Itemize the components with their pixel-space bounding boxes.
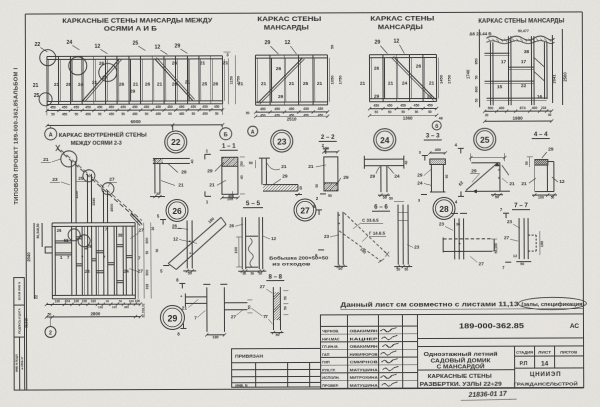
svg-text:30: 30 xyxy=(315,184,319,188)
svg-text:22: 22 xyxy=(34,295,38,299)
svg-text:26: 26 xyxy=(172,206,182,216)
svg-text:17: 17 xyxy=(521,59,527,65)
svg-text:26: 26 xyxy=(172,223,178,228)
svg-text:138: 138 xyxy=(98,305,103,309)
svg-text:21: 21 xyxy=(281,164,287,170)
svg-text:1050: 1050 xyxy=(330,75,335,85)
svg-text:21: 21 xyxy=(157,82,163,88)
svg-text:100: 100 xyxy=(538,196,544,200)
svg-text:26: 26 xyxy=(416,64,422,70)
svg-text:50: 50 xyxy=(445,174,449,178)
svg-text:4 – 4: 4 – 4 xyxy=(534,131,548,138)
svg-text:50: 50 xyxy=(525,161,529,165)
svg-text:16: 16 xyxy=(537,94,543,99)
svg-text:2: 2 xyxy=(49,330,52,336)
svg-text:32,318: 32,318 xyxy=(24,318,28,328)
svg-text:318: 318 xyxy=(145,284,149,290)
svg-text:874: 874 xyxy=(65,299,71,303)
svg-text:ОВАКИМЯН: ОВАКИМЯН xyxy=(350,345,378,349)
svg-text:ИНВ. N: ИНВ. N xyxy=(235,384,248,388)
svg-text:30: 30 xyxy=(156,192,160,196)
svg-text:ОСЯМИ А И Б: ОСЯМИ А И Б xyxy=(104,27,158,33)
svg-text:КАЦНЕР: КАЦНЕР xyxy=(350,337,379,341)
svg-text:800: 800 xyxy=(475,86,479,92)
svg-text:Одноэтажный летний: Одноэтажный летний xyxy=(424,351,498,358)
svg-text:50: 50 xyxy=(401,110,405,114)
svg-text:15: 15 xyxy=(497,84,503,90)
svg-text:21: 21 xyxy=(185,79,191,85)
svg-text:в-3566-17: в-3566-17 xyxy=(20,356,24,369)
svg-text:ЦНИИЭП: ЦНИИЭП xyxy=(530,371,562,378)
svg-text:450: 450 xyxy=(275,114,281,118)
svg-text:100: 100 xyxy=(233,246,238,253)
svg-text:27: 27 xyxy=(504,235,510,240)
svg-text:1150: 1150 xyxy=(230,76,234,84)
svg-text:100: 100 xyxy=(74,299,80,303)
svg-text:50: 50 xyxy=(388,110,392,114)
svg-text:450: 450 xyxy=(132,112,138,116)
svg-text:1360: 1360 xyxy=(403,116,413,121)
svg-text:50: 50 xyxy=(250,272,254,276)
svg-text:105: 105 xyxy=(112,305,117,309)
svg-text:189-000-362.85: 189-000-362.85 xyxy=(459,323,524,330)
svg-text:100: 100 xyxy=(540,241,544,247)
svg-text:450: 450 xyxy=(400,104,406,108)
svg-text:100: 100 xyxy=(135,299,141,303)
svg-text:23: 23 xyxy=(439,221,445,226)
svg-text:2500: 2500 xyxy=(562,72,567,82)
svg-text:25: 25 xyxy=(78,176,84,181)
svg-text:50: 50 xyxy=(375,110,379,114)
svg-text:22: 22 xyxy=(171,137,181,147)
svg-text:С МАНСАРДОЙ: С МАНСАРДОЙ xyxy=(437,362,486,370)
svg-text:ЛИСТОВ: ЛИСТОВ xyxy=(560,350,577,354)
svg-text:Δ6 25.44 Б: Δ6 25.44 Б xyxy=(469,31,491,36)
svg-text:Данный лист см совместно с: Данный лист см совместно с листами 11,13 xyxy=(340,301,519,309)
svg-text:из отходов: из отходов xyxy=(272,261,311,266)
svg-text:50: 50 xyxy=(145,251,149,255)
svg-text:400: 400 xyxy=(435,148,441,152)
svg-text:КАРКАСНЫЕ СТЕНЫ: КАРКАСНЫЕ СТЕНЫ xyxy=(428,374,493,380)
svg-text:2510: 2510 xyxy=(287,117,297,122)
svg-text:12: 12 xyxy=(513,254,517,258)
svg-text:2800: 2800 xyxy=(91,311,101,316)
svg-text:21: 21 xyxy=(92,80,98,86)
svg-text:25: 25 xyxy=(480,135,490,145)
svg-text:50: 50 xyxy=(249,161,253,165)
svg-text:450: 450 xyxy=(427,103,433,107)
svg-text:216: 216 xyxy=(541,106,547,110)
svg-text:450: 450 xyxy=(202,105,208,109)
svg-text:21: 21 xyxy=(178,182,184,188)
svg-text:58: 58 xyxy=(64,238,69,243)
svg-text:38: 38 xyxy=(118,233,123,238)
svg-text:27: 27 xyxy=(138,228,144,234)
svg-text:50: 50 xyxy=(119,299,123,303)
svg-text:C 33.6.5: C 33.6.5 xyxy=(362,218,379,223)
svg-text:А: А xyxy=(49,132,53,138)
svg-text:21: 21 xyxy=(509,181,515,187)
svg-text:КАРКАСНЫЕ СТЕНЫ МАНСАРДЫ МЕ: КАРКАСНЫЕ СТЕНЫ МАНСАРДЫ МЕЖДУ xyxy=(62,18,212,25)
svg-text:РАЗВЕРТКИ. УЗЛЫ 22÷29: РАЗВЕРТКИ. УЗЛЫ 22÷29 xyxy=(420,382,502,388)
svg-text:12: 12 xyxy=(284,40,290,46)
svg-text:ЧЕРНОВ.: ЧЕРНОВ. xyxy=(322,330,339,334)
svg-text:12: 12 xyxy=(559,179,565,185)
svg-text:450: 450 xyxy=(260,114,266,118)
svg-text:50: 50 xyxy=(247,305,251,309)
svg-text:21: 21 xyxy=(289,81,295,87)
svg-text:23: 23 xyxy=(414,245,420,250)
svg-text:900: 900 xyxy=(145,270,149,276)
svg-text:400: 400 xyxy=(532,106,538,110)
svg-text:450: 450 xyxy=(214,105,220,109)
svg-text:450: 450 xyxy=(414,104,420,108)
svg-text:23: 23 xyxy=(52,177,58,183)
svg-text:НАЧ.МАС: НАЧ.МАС xyxy=(322,337,340,341)
svg-text:21: 21 xyxy=(223,60,229,66)
svg-text:29: 29 xyxy=(278,94,284,100)
svg-text:29: 29 xyxy=(87,244,92,249)
svg-text:50: 50 xyxy=(283,296,287,300)
svg-text:26: 26 xyxy=(229,223,234,228)
svg-text:12: 12 xyxy=(393,39,399,45)
svg-text:32,318,32: 32,318,32 xyxy=(141,303,145,317)
svg-text:450: 450 xyxy=(62,106,68,110)
svg-text:50: 50 xyxy=(215,112,219,116)
svg-text:26: 26 xyxy=(276,66,282,72)
svg-text:50: 50 xyxy=(51,112,55,116)
svg-text:26: 26 xyxy=(119,82,125,88)
svg-text:21: 21 xyxy=(317,81,323,87)
svg-text:27: 27 xyxy=(109,177,115,183)
svg-text:450: 450 xyxy=(167,105,173,109)
svg-text:8 – 8: 8 – 8 xyxy=(269,275,283,281)
svg-text:40: 40 xyxy=(190,159,194,163)
svg-text:21: 21 xyxy=(427,93,433,99)
svg-text:ИСПОЛН.: ИСПОЛН. xyxy=(322,376,340,380)
svg-text:40: 40 xyxy=(404,161,408,165)
svg-text:180: 180 xyxy=(212,335,218,339)
svg-text:29: 29 xyxy=(168,313,178,323)
svg-text:450: 450 xyxy=(85,106,91,110)
svg-text:450: 450 xyxy=(156,105,162,109)
svg-text:50: 50 xyxy=(475,75,479,79)
svg-text:50: 50 xyxy=(283,306,287,310)
svg-text:МЕЖДУ ОСЯМИ 2-3: МЕЖДУ ОСЯМИ 2-3 xyxy=(71,141,122,147)
svg-text:1750: 1750 xyxy=(338,75,343,85)
svg-text:+: + xyxy=(458,241,461,246)
svg-text:21: 21 xyxy=(429,80,435,86)
svg-text:450: 450 xyxy=(260,107,266,111)
svg-text:50: 50 xyxy=(330,45,334,49)
svg-text:КАРКАС СТЕНЫ: КАРКАС СТЕНЫ xyxy=(370,16,434,22)
svg-text:450: 450 xyxy=(120,105,126,109)
svg-text:100: 100 xyxy=(129,299,134,303)
svg-text:27: 27 xyxy=(260,284,266,289)
svg-text:29: 29 xyxy=(282,174,288,180)
svg-text:А: А xyxy=(251,129,255,135)
svg-text:450: 450 xyxy=(318,114,324,118)
svg-text:24: 24 xyxy=(85,269,90,274)
svg-text:21: 21 xyxy=(33,83,39,89)
svg-text:1150: 1150 xyxy=(75,191,79,199)
svg-text:САДОВЫЙ ДОМИК: САДОВЫЙ ДОМИК xyxy=(431,356,492,364)
svg-text:450: 450 xyxy=(109,105,115,109)
svg-text:30: 30 xyxy=(548,113,552,117)
svg-text:40: 40 xyxy=(299,186,303,190)
svg-text:МАТУШИНА: МАТУШИНА xyxy=(350,384,378,388)
svg-text:50,348,50: 50,348,50 xyxy=(36,223,40,238)
svg-text:26: 26 xyxy=(99,61,105,67)
svg-text:450: 450 xyxy=(132,105,138,109)
svg-text:48: 48 xyxy=(439,116,443,120)
svg-text:850: 850 xyxy=(474,58,478,64)
svg-text:5 – 5: 5 – 5 xyxy=(246,200,261,207)
svg-text:21: 21 xyxy=(200,60,206,66)
svg-text:50: 50 xyxy=(98,112,102,116)
svg-text:25: 25 xyxy=(202,81,208,87)
svg-text:ВЗАМ ИНВ N: ВЗАМ ИНВ N xyxy=(17,282,21,300)
svg-text:450: 450 xyxy=(109,112,115,116)
svg-text:50: 50 xyxy=(192,112,196,116)
svg-text:450: 450 xyxy=(318,107,324,111)
svg-text:24: 24 xyxy=(380,135,390,145)
svg-text:25: 25 xyxy=(34,93,40,99)
svg-text:24: 24 xyxy=(394,174,400,180)
svg-text:26: 26 xyxy=(66,82,72,88)
svg-text:450: 450 xyxy=(97,105,103,109)
svg-text:450: 450 xyxy=(387,104,393,108)
svg-text:25: 25 xyxy=(303,81,309,87)
svg-text:29: 29 xyxy=(374,94,380,100)
svg-text:26: 26 xyxy=(57,228,62,233)
svg-text:29: 29 xyxy=(374,40,380,46)
svg-text:21: 21 xyxy=(360,81,366,87)
svg-text:24: 24 xyxy=(78,82,84,88)
svg-text:12: 12 xyxy=(94,44,100,50)
svg-text:25: 25 xyxy=(132,41,138,47)
svg-text:310: 310 xyxy=(91,299,97,303)
svg-text:3 – 3: 3 – 3 xyxy=(426,132,440,139)
svg-text:450: 450 xyxy=(62,112,68,116)
svg-text:100: 100 xyxy=(82,299,88,303)
svg-text:ГЛ.ИН.М.: ГЛ.ИН.М. xyxy=(322,345,339,349)
svg-text:7 – 7: 7 – 7 xyxy=(514,202,528,209)
svg-text:26: 26 xyxy=(213,81,219,87)
svg-text:21: 21 xyxy=(182,305,188,310)
svg-text:450: 450 xyxy=(303,114,309,118)
svg-text:1740: 1740 xyxy=(465,69,470,79)
svg-text:50: 50 xyxy=(48,312,52,316)
svg-text:450: 450 xyxy=(191,105,197,109)
svg-text:СМИРНОВ: СМИРНОВ xyxy=(350,360,378,364)
svg-text:б: б xyxy=(435,123,438,130)
svg-text:4500: 4500 xyxy=(110,204,114,212)
svg-text:29: 29 xyxy=(343,175,349,181)
svg-text:1450: 1450 xyxy=(439,74,444,84)
svg-text:22: 22 xyxy=(521,83,527,89)
svg-text:6 – 6: 6 – 6 xyxy=(374,204,388,211)
svg-text:450: 450 xyxy=(50,106,56,110)
svg-text:+: + xyxy=(458,249,461,254)
svg-text:ЛИСТ: ЛИСТ xyxy=(538,351,552,355)
svg-text:ПРОВЕР.: ПРОВЕР. xyxy=(322,384,338,388)
svg-text:МАНСАРДЫ: МАНСАРДЫ xyxy=(264,25,309,31)
svg-text:50: 50 xyxy=(328,194,332,198)
svg-text:450: 450 xyxy=(289,107,295,111)
svg-text:24: 24 xyxy=(402,81,408,87)
svg-text:2040: 2040 xyxy=(26,252,31,262)
svg-text:24: 24 xyxy=(124,269,129,274)
svg-text:29: 29 xyxy=(471,168,477,174)
svg-text:50: 50 xyxy=(389,197,393,201)
svg-text:21: 21 xyxy=(521,181,527,187)
svg-text:450: 450 xyxy=(144,105,150,109)
svg-text:23: 23 xyxy=(324,234,330,239)
svg-text:26: 26 xyxy=(374,66,380,72)
svg-text:50: 50 xyxy=(404,268,408,272)
svg-text:874: 874 xyxy=(520,106,526,110)
svg-text:Бобышка 200×50×50: Бобышка 200×50×50 xyxy=(269,255,329,260)
svg-text:20: 20 xyxy=(151,227,155,231)
svg-text:30: 30 xyxy=(485,113,489,117)
svg-text:36: 36 xyxy=(456,222,460,226)
svg-text:26: 26 xyxy=(172,81,178,87)
svg-text:450: 450 xyxy=(85,112,91,116)
svg-text:29: 29 xyxy=(181,169,187,175)
svg-text:12: 12 xyxy=(271,236,276,241)
svg-text:50: 50 xyxy=(121,112,125,116)
svg-text:450: 450 xyxy=(373,104,379,108)
svg-text:50,100: 50,100 xyxy=(494,243,498,254)
svg-text:21: 21 xyxy=(388,81,394,87)
svg-text:50: 50 xyxy=(240,161,244,165)
svg-text:КАРКАС СТЕНЫ: КАРКАС СТЕНЫ xyxy=(257,17,321,23)
svg-text:1980: 1980 xyxy=(513,116,524,121)
svg-text:ПОДПИСЬ И ДАТА: ПОДПИСЬ И ДАТА xyxy=(17,308,21,333)
svg-text:450: 450 xyxy=(156,112,162,116)
svg-text:450: 450 xyxy=(74,106,80,110)
svg-text:450: 450 xyxy=(202,112,208,116)
svg-text:29: 29 xyxy=(370,174,376,180)
svg-text:50: 50 xyxy=(246,111,250,115)
svg-text:450: 450 xyxy=(179,112,185,116)
svg-text:ПРИВЯЗАН: ПРИВЯЗАН xyxy=(235,354,263,359)
svg-text:23: 23 xyxy=(277,136,287,146)
svg-text:450: 450 xyxy=(179,105,185,109)
svg-text:50: 50 xyxy=(475,98,479,102)
svg-text:ГИП: ГИП xyxy=(322,361,330,365)
svg-text:26: 26 xyxy=(172,60,178,66)
svg-text:24: 24 xyxy=(66,40,72,46)
svg-text:НИКИФОРОВ: НИКИФОРОВ xyxy=(350,353,378,357)
svg-text:38: 38 xyxy=(524,49,530,55)
svg-text:29: 29 xyxy=(417,173,423,178)
svg-text:МАТУШИНА: МАТУШИНА xyxy=(350,368,378,372)
svg-text:28: 28 xyxy=(439,204,449,214)
svg-text:50: 50 xyxy=(168,112,172,116)
svg-text:21: 21 xyxy=(54,82,60,88)
svg-text:1540: 1540 xyxy=(92,198,96,206)
svg-text:900: 900 xyxy=(145,238,149,244)
svg-text:29: 29 xyxy=(130,89,136,95)
svg-text:29: 29 xyxy=(207,168,213,174)
svg-text:21: 21 xyxy=(238,81,244,87)
svg-text:29: 29 xyxy=(548,147,554,153)
svg-text:26: 26 xyxy=(102,75,107,80)
svg-text:29: 29 xyxy=(174,43,180,49)
svg-text:50: 50 xyxy=(428,110,432,114)
svg-text:12: 12 xyxy=(173,236,179,241)
svg-text:23: 23 xyxy=(507,219,513,224)
svg-text:(залы, спецификация): (залы, спецификация) xyxy=(521,301,584,308)
svg-text:50: 50 xyxy=(415,110,419,114)
svg-text:КАРКАС СТЕНЫ МАНСАРДЫ: КАРКАС СТЕНЫ МАНСАРДЫ xyxy=(478,18,564,24)
svg-text:385: 385 xyxy=(124,305,129,309)
svg-text:МАНСАРДЫ: МАНСАРДЫ xyxy=(378,25,423,31)
svg-text:450: 450 xyxy=(274,107,280,111)
svg-text:АС: АС xyxy=(570,323,580,330)
svg-text:17: 17 xyxy=(501,59,507,65)
svg-text:14: 14 xyxy=(541,361,549,368)
svg-text:21: 21 xyxy=(43,157,49,163)
svg-text:50: 50 xyxy=(106,299,110,303)
svg-text:12: 12 xyxy=(154,45,160,51)
svg-text:21: 21 xyxy=(261,81,267,87)
svg-text:50,477: 50,477 xyxy=(518,29,529,33)
svg-text:40: 40 xyxy=(240,175,244,179)
svg-text:450: 450 xyxy=(303,107,309,111)
svg-text:400: 400 xyxy=(499,106,505,110)
svg-text:50: 50 xyxy=(75,112,79,116)
svg-text:21: 21 xyxy=(133,82,139,88)
svg-text:24: 24 xyxy=(417,181,423,186)
svg-text:ОВАКИМЯН: ОВАКИМЯН xyxy=(349,329,377,333)
svg-text:500: 500 xyxy=(488,106,494,110)
svg-text:21: 21 xyxy=(308,164,314,170)
svg-text:50: 50 xyxy=(145,112,149,116)
svg-text:2 – 2: 2 – 2 xyxy=(321,134,335,141)
svg-text:100: 100 xyxy=(55,299,61,303)
svg-text:РУК.ГР.: РУК.ГР. xyxy=(322,368,335,372)
svg-text:50: 50 xyxy=(155,249,159,253)
svg-text:27: 27 xyxy=(479,261,485,266)
svg-text:Р.П: Р.П xyxy=(520,361,528,367)
svg-text:1 – 1: 1 – 1 xyxy=(222,143,236,150)
svg-text:22: 22 xyxy=(34,42,40,48)
svg-text:СТАДИЯ: СТАДИЯ xyxy=(516,351,533,355)
svg-text:27: 27 xyxy=(300,205,310,215)
svg-text:Б: Б xyxy=(224,132,228,138)
svg-text:26: 26 xyxy=(145,82,151,88)
svg-text:50: 50 xyxy=(520,262,524,266)
svg-text:29: 29 xyxy=(264,40,270,46)
svg-text:Г 14.6.5: Г 14.6.5 xyxy=(369,231,385,236)
svg-text:1750: 1750 xyxy=(447,74,452,84)
svg-text:МИТРОХИНА: МИТРОХИНА xyxy=(350,376,378,380)
svg-text:ИНВ N ПОДЛ: ИНВ N ПОДЛ xyxy=(15,354,19,372)
svg-text:ГАП: ГАП xyxy=(322,353,330,357)
svg-text:27: 27 xyxy=(231,314,237,319)
svg-text:6000: 6000 xyxy=(131,119,142,124)
svg-text:21: 21 xyxy=(209,182,215,188)
